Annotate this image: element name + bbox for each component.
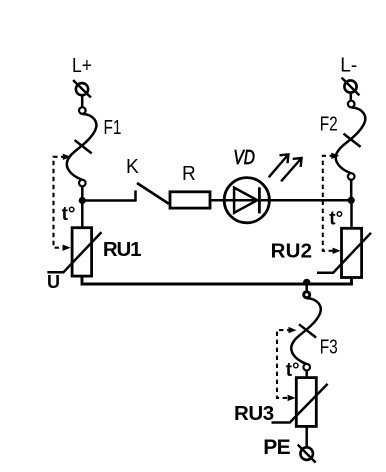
- svg-text:VD: VD: [233, 147, 255, 169]
- svg-text:F3: F3: [320, 337, 338, 359]
- circuit breaker F1: [67, 107, 97, 186]
- resistor R: [170, 192, 210, 208]
- svg-text:t°: t°: [329, 209, 343, 230]
- svg-text:RU2: RU2: [271, 239, 313, 262]
- wire node A down to RU1: [81, 201, 84, 228]
- wire node B down to RU2: [350, 200, 353, 228]
- bus wire RU1 to RU2: [82, 275, 352, 284]
- svg-text:R: R: [182, 163, 196, 185]
- svg-text:K: K: [126, 156, 139, 178]
- wire F2 to node B: [350, 180, 353, 201]
- wire R to LED VD and on to node B: [210, 199, 351, 202]
- wire F3 to RU3: [305, 371, 308, 378]
- svg-text:RU1: RU1: [103, 238, 141, 261]
- wire L- terminal to F2: [350, 93, 353, 101]
- junction node B: [348, 197, 355, 204]
- circuit breaker F2: [336, 101, 366, 180]
- terminal L+: [73, 80, 91, 97]
- svg-text:U: U: [47, 272, 60, 292]
- junction node C on bus: [303, 279, 310, 286]
- svg-text:L-: L-: [340, 55, 357, 77]
- svg-text:t°: t°: [62, 204, 76, 225]
- circuit breaker F3: [291, 292, 321, 371]
- terminal L-: [342, 78, 360, 96]
- terminal PE: [298, 445, 316, 463]
- thermal coupling dashed link F2 to RU2: [323, 153, 341, 254]
- wire RU3 to PE terminal: [305, 426, 308, 447]
- wire node A to switch K: [82, 199, 135, 202]
- wire node C to F3: [305, 284, 308, 292]
- wire L+ terminal to F1: [81, 95, 84, 107]
- LED light arrow 2: [281, 158, 302, 181]
- LED VD: [224, 178, 269, 223]
- thermistor RU1: [47, 228, 101, 276]
- junction node A: [79, 197, 86, 204]
- switch K: [136, 183, 169, 204]
- thermistor RU2: [317, 228, 371, 277]
- svg-text:RU3: RU3: [234, 402, 274, 425]
- svg-text:F2: F2: [320, 114, 338, 136]
- thermistor RU3: [272, 378, 328, 427]
- svg-text:PE: PE: [263, 436, 290, 459]
- wire F1 to node A: [81, 186, 84, 200]
- svg-text:F1: F1: [104, 117, 122, 139]
- LED light arrow 1: [269, 154, 289, 177]
- thermal coupling dashed link F1 to RU1: [54, 154, 71, 251]
- thermal coupling dashed link F3 to RU3: [277, 327, 297, 401]
- svg-text:L+: L+: [72, 55, 92, 77]
